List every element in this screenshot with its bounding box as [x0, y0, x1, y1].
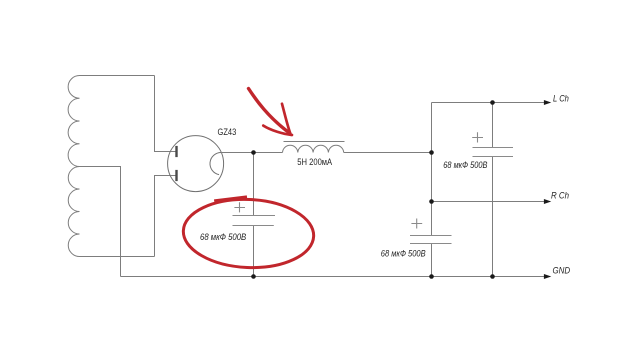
svg-text:GZ43: GZ43: [218, 127, 237, 137]
wire right rail lower: [431, 244, 433, 277]
svg-text:L Ch: L Ch: [553, 93, 569, 103]
wire bottom winding to rectifier anode: [155, 176, 177, 257]
inductor L1 core line: [284, 141, 345, 143]
capacitor C1 plates: [473, 148, 514, 157]
inductor L1 choke bumps: [283, 145, 344, 152]
arrowhead L Ch: [544, 101, 550, 105]
wire center tap down: [78, 167, 121, 277]
tube U1 anode plate upper: [175, 146, 177, 157]
capacitor C2 plates: [410, 236, 452, 244]
svg-text:68 мкФ 500В: 68 мкФ 500В: [200, 232, 246, 242]
wire B+ line right of choke: [344, 152, 432, 154]
tube U1 GZ43 envelope: [168, 136, 224, 192]
junction node B+ / right rail: [429, 150, 434, 155]
annotation red arrow barb right: [282, 104, 291, 134]
capacitor C2 plus sign: [411, 219, 422, 229]
wire C3 rail lower: [253, 226, 255, 277]
junction node GND / C3: [251, 274, 256, 279]
wire B+ line left of choke: [221, 152, 283, 154]
wire C3 rail upper: [253, 153, 255, 216]
junction node GND / rail: [429, 274, 434, 279]
wire C1 rail lower: [492, 157, 494, 277]
junction node B+ / C3: [251, 150, 256, 155]
annotation red arrow shaft: [249, 89, 290, 134]
svg-text:GND: GND: [553, 266, 571, 276]
svg-text:5Н 200мА: 5Н 200мА: [297, 157, 332, 167]
wire R Ch line: [432, 201, 546, 203]
arrowhead GND: [544, 275, 550, 279]
tube U1 anode plate lower: [175, 170, 177, 181]
wire C1 rail upper: [492, 103, 494, 148]
wire top winding to rectifier anode: [155, 76, 177, 152]
transformer T1 winding: [68, 76, 154, 257]
capacitor C1 plus sign: [472, 132, 483, 142]
arrowhead R Ch: [544, 200, 550, 204]
svg-text:68 мкФ 500В: 68 мкФ 500В: [443, 160, 487, 170]
wire right rail upper: [431, 103, 433, 236]
capacitor C3 plus sign: [234, 202, 245, 212]
capacitor C3 plates: [233, 216, 276, 226]
annotation red arrow barb left: [263, 126, 292, 135]
junction node L Ch / C1: [490, 100, 495, 105]
wire GND rail: [121, 276, 546, 278]
wire L Ch line: [432, 102, 546, 104]
annotation red ellipse: [182, 197, 315, 271]
junction node GND / C1: [490, 274, 495, 279]
junction node R Ch / rail: [429, 199, 434, 204]
svg-text:68 мкФ 500В: 68 мкФ 500В: [381, 248, 426, 258]
annotation red ellipse tail stroke: [214, 195, 247, 201]
tube U1 cathode arc: [210, 152, 221, 174]
svg-text:R Ch: R Ch: [551, 190, 569, 200]
